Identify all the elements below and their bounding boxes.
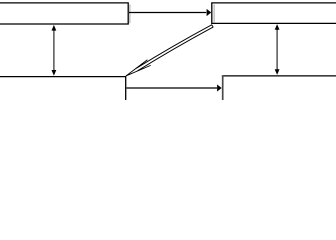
- arrow bottom: from box bottom-left to box bottom-right: [127, 87, 218, 89]
- shadow of box top-left right edge: [129, 5, 131, 24]
- double arrow right (vertical, between top-right and bottom-right boxes): [276, 29, 278, 70]
- double arrow left (vertical, between top-left and bottom-left boxes): [53, 30, 55, 71]
- needle pointer: open arrow from top-right box corner down to bottom-left box corner: [126, 25, 213, 76]
- box top-left (cropped at left edge): [0, 3, 128, 24]
- box bottom-left (cropped at left and bottom edges): [0, 77, 126, 104]
- box top-right (cropped at right edge): [212, 3, 336, 24]
- box bottom-right (cropped at right and bottom edges): [222, 75, 336, 77]
- arrow top: from box top-left to box top-right: [129, 12, 206, 14]
- shadow inside box top-right left edge: [213, 5, 215, 23]
